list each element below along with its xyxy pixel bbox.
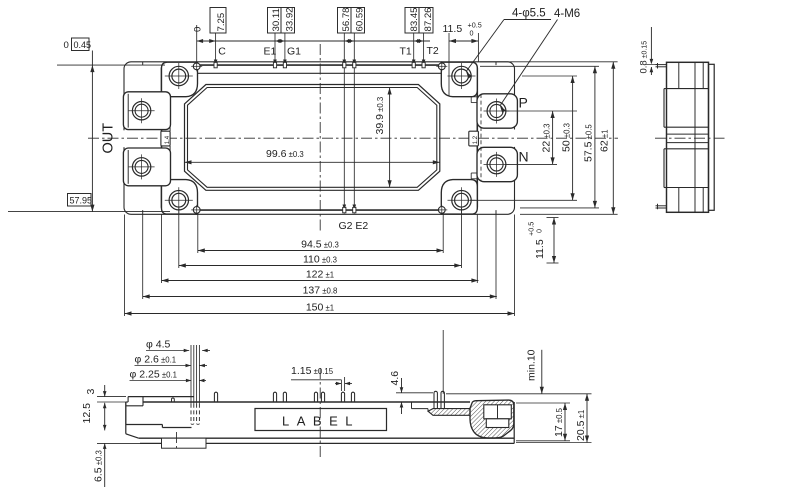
- svg-text:4.6: 4.6: [389, 371, 401, 386]
- svg-text:G1: G1: [287, 46, 301, 58]
- dim 39.9 recess height: [389, 88, 391, 188]
- svg-text:G2 E2: G2 E2: [339, 220, 369, 232]
- svg-text:60.59: 60.59: [354, 7, 365, 31]
- svg-text:3: 3: [85, 389, 97, 395]
- coordinate extension lines to pins: [215, 33, 217, 64]
- top view baseplate outline 150x62: [124, 62, 515, 215]
- dim 6.5: [104, 443, 106, 487]
- svg-text:6.5 ±0.3: 6.5 ±0.3: [93, 450, 105, 482]
- horizontal centerline: [88, 137, 618, 139]
- G2 E2 extension lines through module: [343, 66, 345, 214]
- dim 3 terminal tip: [104, 385, 106, 397]
- svg-text:T1: T1: [400, 46, 412, 58]
- svg-text:0: 0: [64, 40, 69, 51]
- svg-text:1.4: 1.4: [165, 135, 171, 144]
- solder pins on case top: [214, 392, 217, 402]
- dim 57.5 case height: [594, 66, 596, 208]
- end view horizontal partitions: [667, 88, 709, 90]
- dim 11.5 right lower: [553, 218, 555, 264]
- svg-text:N: N: [519, 149, 529, 165]
- baseplate corner step marks: [142, 62, 144, 65]
- svg-text:φ 4.5: φ 4.5: [146, 339, 170, 351]
- dim 12.5: [104, 403, 106, 431]
- terminal chamfer aux line: [128, 421, 143, 434]
- bottom view vertical centerline: [319, 368, 321, 458]
- svg-text:OUT: OUT: [101, 123, 117, 154]
- svg-text:7.25: 7.25: [216, 13, 227, 32]
- dim 50 mounting holes: [572, 76, 574, 200]
- svg-text:0: 0: [193, 27, 204, 32]
- dim 99.6 recess width: [185, 161, 440, 163]
- boxed coordinate dimensions row: [210, 8, 226, 34]
- label recess box: [255, 409, 387, 431]
- terminal under-step: [162, 438, 207, 448]
- svg-text:39.9 ±0.3: 39.9 ±0.3: [374, 97, 386, 135]
- svg-text:110 ±0.3: 110 ±0.3: [303, 253, 337, 265]
- clamp section hatched: [470, 400, 514, 438]
- OUT terminal tab upper: [123, 92, 170, 130]
- corner lug bottom-right with mounting hole: [441, 180, 477, 215]
- svg-text:94.5 ±0.3: 94.5 ±0.3: [301, 238, 339, 250]
- svg-text:11.5: 11.5: [534, 239, 546, 259]
- dim min10: [541, 350, 543, 394]
- svg-text:T2: T2: [427, 45, 439, 57]
- P terminal tab: [477, 94, 517, 128]
- svg-text:137 ±0.8: 137 ±0.8: [303, 284, 338, 296]
- svg-text:min.10: min.10: [526, 349, 538, 381]
- svg-text:4-M6: 4-M6: [554, 8, 580, 20]
- small notches at P N neck: [471, 96, 477, 98]
- svg-text:0: 0: [470, 29, 474, 38]
- end view side flanges: [663, 89, 665, 128]
- case left edge inset between lugs: [169, 97, 171, 132]
- box 57.95: [68, 194, 92, 207]
- svg-text:122 ±1: 122 ±1: [306, 268, 334, 280]
- case nose between OUT tabs: [161, 131, 170, 146]
- svg-text:1.15 ±0.15: 1.15 ±0.15: [291, 365, 334, 377]
- extension lines for width dims: [197, 213, 199, 253]
- dim 0.8 pin offset: [650, 27, 652, 63]
- svg-text:62 ±1: 62 ±1: [599, 130, 611, 152]
- svg-text:E1: E1: [264, 46, 277, 58]
- OUT terminal tab lower: [123, 148, 170, 186]
- clamp nut pocket upper: [484, 405, 512, 419]
- svg-text:11.5: 11.5: [443, 23, 463, 35]
- case top rim line: [197, 72, 442, 74]
- end view body outline: [667, 62, 709, 212]
- dim 17: [564, 403, 566, 441]
- svg-text:22 ±0.3: 22 ±0.3: [541, 124, 553, 153]
- svg-text:φ 2.6 ±0.1: φ 2.6 ±0.1: [135, 354, 177, 366]
- svg-text:LABEL: LABEL: [282, 414, 360, 429]
- svg-text:P: P: [519, 95, 528, 111]
- mask band edge between tabs: [122, 130, 126, 147]
- bottom view baseplate bottom: [140, 442, 514, 444]
- svg-text:33.92: 33.92: [284, 7, 295, 31]
- svg-text:4-φ5.5: 4-φ5.5: [512, 8, 546, 20]
- svg-text:12.5: 12.5: [81, 403, 93, 424]
- case nose between P N tabs: [469, 131, 479, 146]
- left dim extension lines: [57, 64, 165, 66]
- bottom view case bottom edge: [139, 437, 515, 439]
- svg-text:30.11: 30.11: [271, 8, 282, 31]
- busbar strip section: [428, 409, 470, 416]
- svg-text:1.2: 1.2: [473, 135, 479, 144]
- case body outline 122 wide: [162, 65, 478, 210]
- end view bottom pin: [656, 205, 667, 207]
- svg-text:150 ±1: 150 ±1: [306, 301, 334, 313]
- svg-text:C: C: [218, 46, 226, 58]
- dim 62 overall depth: [612, 62, 614, 215]
- lid recess inner octagon: [188, 88, 437, 188]
- svg-text:50 ±0.3: 50 ±0.3: [561, 123, 573, 152]
- corner lug bottom-left with mounting hole: [162, 180, 198, 215]
- svg-text:0: 0: [535, 229, 544, 233]
- projection line right pins: [442, 330, 444, 394]
- svg-text:57.95: 57.95: [70, 196, 93, 206]
- terminal coordinate dimension line: [197, 40, 430, 42]
- dim 22 P to N: [552, 111, 554, 164]
- svg-text:20.5 ±1: 20.5 ±1: [575, 410, 587, 441]
- clamp nut pocket lower: [486, 419, 509, 428]
- vertical centerline: [319, 44, 321, 232]
- width dimension rows 94.5 110 122 137 150: [198, 250, 444, 252]
- end view centerline: [655, 137, 725, 139]
- hidden case edge behind P N tabs: [480, 94, 482, 182]
- left vertical dimension line 57.95: [91, 51, 93, 212]
- svg-text:99.6 ±0.3: 99.6 ±0.3: [266, 148, 304, 160]
- svg-text:56.78: 56.78: [341, 7, 352, 31]
- bottom view right end line: [513, 402, 515, 443]
- busbar left step: [405, 401, 412, 403]
- svg-text:17 ±0.5: 17 ±0.5: [553, 407, 565, 437]
- end view top pin: [656, 64, 667, 66]
- end view inner vertical lines: [694, 62, 696, 212]
- dim 11.5 top: [449, 40, 478, 42]
- svg-text:83.45: 83.45: [409, 7, 420, 31]
- terminal pin marks on case edges: [214, 62, 217, 67]
- dim 20.5: [586, 394, 588, 443]
- hidden terminal pin holes: [190, 345, 192, 404]
- terminal pins right pair: [434, 391, 437, 408]
- corner lug top-left with mounting hole: [162, 62, 198, 96]
- lid recess outer octagon: [185, 85, 440, 191]
- svg-text:0.45: 0.45: [74, 40, 92, 50]
- OUT terminal front profile: [128, 396, 194, 398]
- svg-text:φ 2.25 ±0.1: φ 2.25 ±0.1: [130, 369, 177, 381]
- N terminal tab: [477, 147, 517, 181]
- svg-text:87.26: 87.26: [423, 7, 434, 31]
- svg-text:57.5 ±0.5: 57.5 ±0.5: [583, 124, 595, 162]
- corner lug top-right with mounting hole: [441, 62, 477, 96]
- end view baseplate: [709, 64, 715, 210]
- bottom view case top edge: [143, 401, 470, 403]
